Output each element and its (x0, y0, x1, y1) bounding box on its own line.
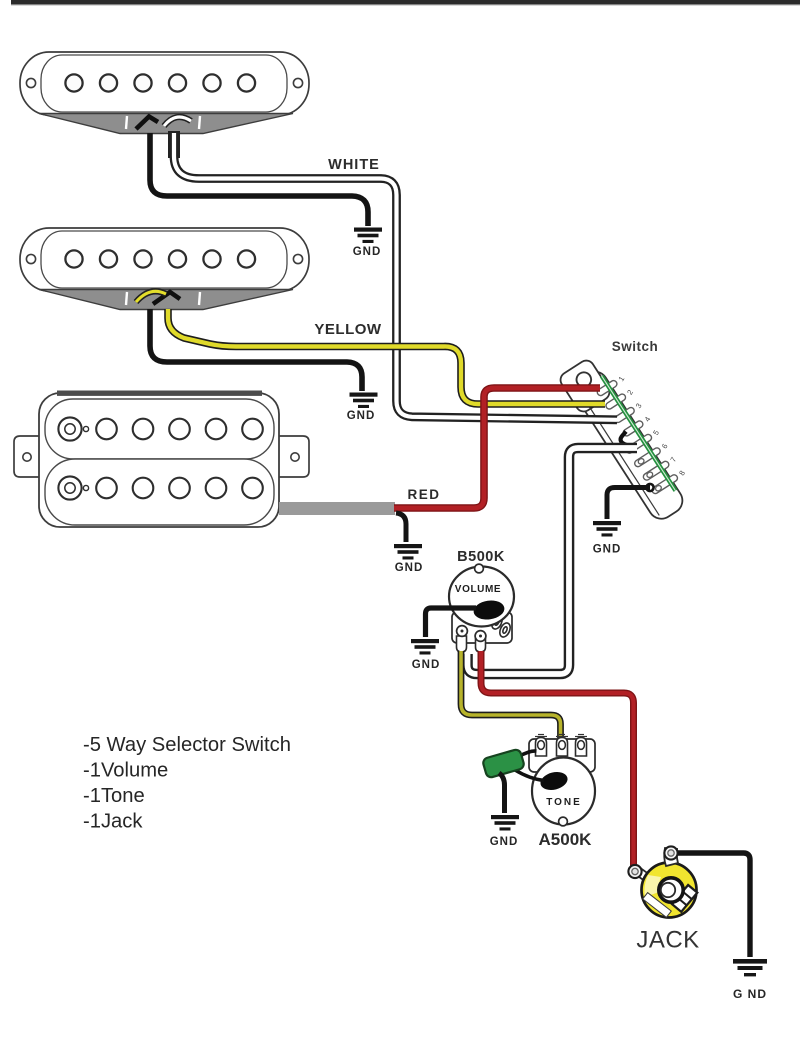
VR2 body circle (532, 758, 595, 825)
wire: P2 black lead to ground (150, 309, 362, 391)
P1 left ear screw (26, 78, 35, 87)
svg-text:Switch: Switch (612, 339, 659, 354)
svg-text:RED: RED (407, 487, 440, 502)
SW1 body (569, 367, 688, 524)
5-way selector switch SW1 (558, 347, 702, 527)
P3 bottom coil polepieces (58, 476, 262, 499)
J1 ground lug nut (664, 846, 677, 859)
VR1 lug2 hole (475, 631, 486, 642)
output jack J1 (628, 846, 697, 917)
svg-text:-1Volume: -1Volume (83, 760, 168, 782)
ground GND4 (switch) (593, 521, 621, 537)
ground GND1 (P1) (354, 228, 382, 244)
VR1 top notch (475, 564, 484, 573)
P2 outer flange (20, 228, 309, 291)
ground GND5 (volume) (411, 639, 439, 655)
VR1 lug1 hole (457, 626, 468, 637)
P2 black lead hook (153, 292, 180, 304)
top border bar (11, 0, 800, 5)
P3 left mounting tab (14, 436, 41, 477)
svg-text:-1Tone: -1Tone (83, 785, 145, 807)
VR1 lug ears right (490, 613, 512, 638)
P3 top coil polepieces (58, 417, 262, 440)
P2 yellow lead arc (136, 291, 166, 302)
SW1 lug 4 (622, 420, 644, 437)
wire: switch lug8 to ground (607, 488, 650, 520)
J1 tip lug strap (634, 867, 658, 888)
J1 tip lug nut (628, 865, 641, 878)
P3 body (39, 393, 279, 527)
J1 body (642, 863, 697, 918)
P2 base tick right (199, 292, 200, 305)
wire: volume lug1 yellow to tone (461, 651, 561, 738)
ground GND6 (tone) (491, 815, 519, 831)
VR2 lug serrations (535, 735, 587, 737)
SW1 lug 5 (625, 433, 653, 454)
P1 base plate (39, 114, 293, 134)
P1 right ear screw (293, 78, 302, 87)
J1 ground lug tab (664, 848, 678, 866)
wire: P2 yellow lead to switch lug 2 (168, 309, 605, 404)
P2 base plate (39, 290, 293, 310)
VR2 lug 3 (right) (576, 738, 587, 757)
svg-text:YELLOW: YELLOW (314, 321, 382, 338)
P1 black lead hook (136, 117, 158, 130)
wire: jack ground lug to ground (678, 853, 750, 957)
P2 right ear screw (293, 254, 302, 263)
SW1 ear hole (574, 370, 594, 390)
capacitor C1 (482, 749, 525, 779)
J1 white wedge left (644, 875, 661, 897)
wire: humbucker red lead to switch lug 1 (394, 388, 600, 508)
svg-text:GND: GND (395, 562, 424, 574)
VR2 lug 2 (middle) (557, 738, 568, 757)
tone potentiometer VR2 A500K (482, 735, 595, 826)
P2 inner cover (41, 231, 287, 288)
P1 polepieces (65, 74, 255, 91)
svg-text:GND: GND (490, 836, 519, 848)
VR1 casing (452, 612, 512, 643)
wire: switch lug5 to volume input (468, 448, 638, 674)
single-coil pickup P1 (neck) (20, 52, 309, 134)
SW1 lug 2 (605, 393, 627, 410)
P3 right mounting tab (277, 436, 309, 477)
wire: volume casing to ground (426, 608, 477, 637)
SW1 lug 1 (596, 379, 618, 396)
SW1 lug 6 (633, 447, 661, 468)
VR1 shaft ellipse (472, 599, 505, 622)
P1 base tick left (126, 116, 127, 129)
VR2 bottom notch (559, 817, 568, 826)
svg-text:A500K: A500K (539, 830, 593, 849)
P3 top coil (45, 399, 274, 459)
wire: jumper switch lug4 to lug5 (621, 432, 635, 449)
VR2 lug 1 (left) (536, 738, 547, 757)
wire: P1 white lead to switch lug 3 (174, 131, 617, 420)
P3 top bar (57, 391, 262, 396)
VR2 casing (529, 739, 595, 772)
SW1 lug numbers (616, 373, 688, 480)
single-coil pickup P2 (middle) (20, 228, 309, 310)
svg-text:VOLUME: VOLUME (455, 584, 501, 595)
SW1 lug 3 (613, 406, 635, 423)
volume potentiometer VR1 B500K (449, 564, 514, 652)
wire: P1 black lead to ground (150, 133, 368, 226)
svg-text:JACK: JACK (636, 927, 699, 954)
wire: tone casing to ground (499, 773, 505, 813)
svg-text:-5 Way Selector Switch: -5 Way Selector Switch (83, 734, 291, 756)
svg-text:WHITE: WHITE (328, 157, 380, 173)
J1 center ring (659, 878, 683, 902)
J1 white stripe (643, 893, 672, 918)
capacitor C1 lead to casing (515, 770, 544, 781)
ground GND2 (P2) (350, 393, 378, 409)
humbucker pickup P3 (bridge) (14, 391, 309, 528)
ground GND7 (jack) (733, 959, 767, 976)
VR2 shaft ellipse (539, 769, 570, 792)
P2 polepieces (65, 250, 255, 267)
svg-text:B500K: B500K (457, 549, 505, 565)
capacitor C1 lead to lug1 (518, 751, 537, 757)
svg-text:GND: GND (593, 544, 622, 556)
P2 base tick left (126, 292, 127, 305)
ground GND3 (humbucker) (394, 544, 422, 560)
P3 bottom coil (45, 459, 274, 525)
svg-text:GND: GND (353, 246, 382, 258)
VR1 body circle (449, 567, 514, 627)
P1 white lead arc (164, 117, 191, 126)
J1 sleeve prong (672, 885, 697, 912)
svg-text:GND: GND (347, 410, 376, 422)
parts list text (83, 734, 291, 833)
P1 base tick right (199, 116, 200, 129)
P1 outer flange (20, 52, 309, 115)
SW1 lug 8 (651, 474, 679, 495)
SW1 green contact strip (602, 376, 676, 491)
svg-text:TONE: TONE (546, 797, 582, 808)
SW1 lug 7 (642, 460, 670, 481)
P2 left ear screw (26, 254, 35, 263)
svg-text:GND: GND (412, 659, 441, 671)
svg-text:-1Jack: -1Jack (83, 811, 143, 833)
VR1 lug 1 (left) (457, 636, 467, 652)
P1 inner cover (41, 55, 287, 112)
VR1 lug 2 (middle) (476, 636, 486, 652)
wire: volume lug2 red to jack (481, 651, 634, 868)
svg-text:G ND: G ND (733, 987, 767, 1001)
P3 gray shielded cable (279, 502, 395, 515)
wire: humbucker bare lead to ground (396, 513, 406, 542)
SW1 mounting ear (558, 358, 613, 415)
